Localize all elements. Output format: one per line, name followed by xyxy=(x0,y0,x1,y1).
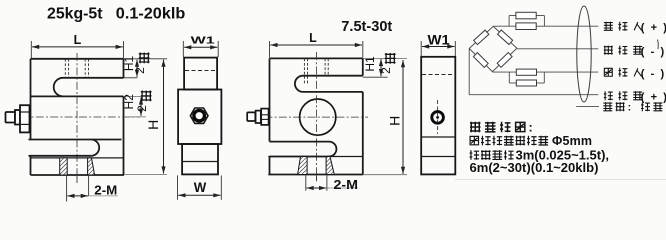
svg-text:25kg-5t: 25kg-5t xyxy=(47,6,103,23)
svg-text:Φ5mm: Φ5mm xyxy=(552,134,592,148)
svg-text:H: H xyxy=(145,120,161,130)
svg-text:W1: W1 xyxy=(428,32,451,47)
svg-text:( - ): ( - ) xyxy=(641,68,666,80)
svg-text:0.1-20klb: 0.1-20klb xyxy=(116,6,186,23)
svg-text:7.5t-30t: 7.5t-30t xyxy=(341,19,392,35)
svg-text:( + ): ( + ) xyxy=(641,91,666,103)
svg-text:2: 2 xyxy=(379,67,393,74)
svg-text:L: L xyxy=(74,33,82,47)
svg-text:( + ): ( + ) xyxy=(641,22,666,34)
svg-text:6m(2~30t)(0.1~20klb): 6m(2~30t)(0.1~20klb) xyxy=(470,161,599,175)
svg-text:( - ): ( - ) xyxy=(641,46,666,58)
svg-text:H2: H2 xyxy=(122,94,136,110)
svg-text::: : xyxy=(529,120,533,134)
svg-text:H: H xyxy=(387,116,403,126)
svg-text:L: L xyxy=(309,31,317,45)
svg-text:2-M: 2-M xyxy=(334,177,359,192)
svg-text:W: W xyxy=(194,179,207,195)
svg-text:2: 2 xyxy=(135,105,149,112)
svg-text:W1: W1 xyxy=(191,35,215,47)
svg-text:H1: H1 xyxy=(363,56,377,72)
svg-text::: : xyxy=(628,102,632,114)
svg-text:2: 2 xyxy=(133,67,147,74)
svg-text:2-M: 2-M xyxy=(94,182,117,197)
